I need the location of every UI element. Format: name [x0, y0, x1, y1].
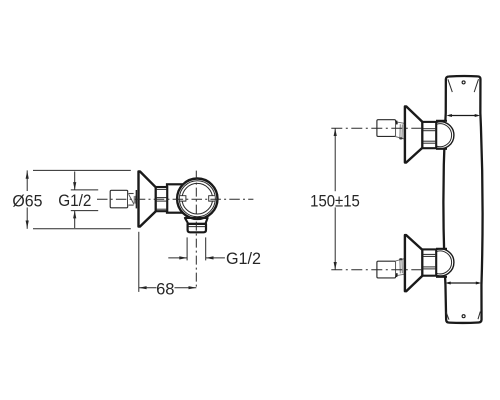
- union nut: [422, 122, 436, 148]
- horizontal centerline (side view): [97, 198, 253, 200]
- outlet spout (side view): [188, 224, 206, 232]
- svg-text:Ø65: Ø65: [12, 192, 42, 210]
- bottom cap screw hole: [462, 315, 465, 318]
- svg-text:G1/2: G1/2: [58, 192, 91, 210]
- vertical centerline (side view): [195, 171, 197, 290]
- bottom seam arrow line: [445, 282, 481, 285]
- nipple: [396, 122, 404, 139]
- top seam arrow line: [446, 114, 480, 117]
- elbow bulge: [436, 121, 454, 149]
- mixer bar body (front view): [443, 76, 482, 323]
- connector (wall union, side view): [110, 190, 128, 208]
- dimension G1/2 bottom: [168, 237, 261, 268]
- svg-text:150±15: 150±15: [310, 192, 360, 210]
- threaded nipple (side view): [128, 190, 137, 208]
- escutcheon cone: [405, 106, 423, 162]
- dimension D65: [12, 170, 130, 228]
- dimension 68: [139, 232, 197, 298]
- svg-text:G1/2: G1/2: [226, 250, 261, 268]
- top inlet centerline (front view): [331, 127, 422, 129]
- bottom inlet assembly (front view, mirrored): [377, 235, 454, 291]
- dimension 150+-15: [310, 128, 360, 270]
- svg-text:68: 68: [156, 280, 174, 298]
- dimension G1/2 left: [58, 172, 98, 229]
- outlet collar (side view): [185, 218, 208, 224]
- top cap screw hole: [462, 81, 465, 84]
- union nut (side view): [156, 187, 167, 211]
- escutcheon cone (side view): [139, 171, 156, 226]
- bottom inlet centerline (front view): [331, 269, 422, 271]
- top inlet assembly (front view): [377, 106, 454, 162]
- connector: [377, 120, 396, 137]
- body neck (side view): [167, 184, 183, 212]
- valve body circle (side view): [177, 179, 217, 219]
